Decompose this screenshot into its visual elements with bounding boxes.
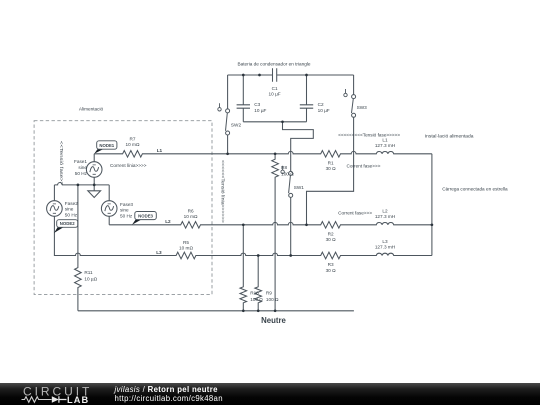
svg-text:R8: R8 (281, 165, 287, 170)
svg-text:L2: L2 (382, 209, 388, 214)
svg-text:Corrent línia>>>>: Corrent línia>>>> (110, 163, 147, 168)
svg-text:10 µΩ: 10 µΩ (84, 276, 97, 281)
svg-text:Càrrega connectada en estrella: Càrrega connectada en estrella (442, 186, 508, 191)
svg-text:sine: sine (78, 165, 87, 170)
svg-text:L3: L3 (156, 250, 162, 255)
svg-text:LAB: LAB (67, 395, 89, 405)
svg-text:10 mΩ: 10 mΩ (184, 214, 198, 219)
svg-text:R3: R3 (328, 262, 334, 267)
svg-text:Bateria de condensador en tria: Bateria de condensador en triangle (238, 61, 311, 66)
svg-text:sine: sine (65, 207, 74, 212)
svg-text:NODE2: NODE2 (60, 221, 75, 226)
svg-text:100 Ω: 100 Ω (281, 172, 294, 177)
svg-text:SW2: SW2 (231, 122, 242, 127)
svg-text:C1: C1 (272, 86, 278, 91)
svg-text:R9: R9 (266, 290, 272, 295)
svg-text:30 Ω: 30 Ω (326, 166, 337, 171)
svg-text:127.3 mH: 127.3 mH (375, 245, 395, 250)
svg-text:10 mΩ: 10 mΩ (126, 142, 140, 147)
svg-text:10 µF: 10 µF (269, 92, 281, 97)
svg-text:30 Ω: 30 Ω (326, 268, 337, 273)
svg-text:Corrent fase>>>: Corrent fase>>> (347, 163, 381, 168)
svg-text:50 Hz: 50 Hz (120, 214, 133, 219)
svg-text:100 Ω: 100 Ω (250, 297, 263, 302)
svg-text:127.3 mH: 127.3 mH (375, 143, 395, 148)
svg-text:10 mΩ: 10 mΩ (179, 246, 193, 251)
svg-text:L1: L1 (382, 138, 388, 143)
svg-text:50 Hz: 50 Hz (75, 171, 88, 176)
svg-text:Corrent fase>>>: Corrent fase>>> (338, 211, 372, 216)
svg-text:100 Ω: 100 Ω (266, 297, 279, 302)
svg-text:Fase1: Fase1 (74, 159, 87, 164)
svg-text:NODE1: NODE1 (99, 143, 114, 148)
svg-text:Fase3: Fase3 (120, 202, 133, 207)
svg-text:L2: L2 (165, 219, 171, 224)
svg-text:R1: R1 (328, 161, 334, 166)
svg-text:C2: C2 (318, 102, 324, 107)
svg-text:R11: R11 (84, 270, 93, 275)
svg-text:R7: R7 (130, 136, 136, 141)
svg-text:<<<<<<Tensió línia>>>>>>: <<<<<<Tensió línia>>>>>> (220, 160, 225, 223)
svg-text:R5: R5 (183, 240, 189, 245)
svg-text:<<Tensió fase>>: <<Tensió fase>> (59, 141, 64, 185)
svg-text:10 µF: 10 µF (318, 108, 330, 113)
svg-text:Alimentació: Alimentació (79, 106, 104, 111)
svg-text:L3: L3 (382, 239, 388, 244)
svg-text:R10: R10 (250, 290, 259, 295)
svg-text:R6: R6 (188, 208, 194, 213)
svg-text:50 Hz: 50 Hz (65, 213, 78, 218)
svg-text:SW3: SW3 (357, 105, 368, 110)
svg-text:Instal·lació alimentada: Instal·lació alimentada (425, 133, 474, 139)
svg-text:30 Ω: 30 Ω (326, 237, 337, 242)
svg-text:L1: L1 (157, 148, 163, 153)
svg-text:sine: sine (120, 208, 129, 213)
svg-text:SW1: SW1 (294, 185, 305, 190)
svg-text:R2: R2 (328, 232, 334, 237)
svg-text:NODE3: NODE3 (138, 213, 153, 218)
svg-text:127.3 mH: 127.3 mH (375, 214, 395, 219)
svg-text:C3: C3 (254, 102, 260, 107)
svg-text:Fase2: Fase2 (65, 201, 78, 206)
svg-text:Neutre: Neutre (261, 316, 286, 325)
svg-text:10 µF: 10 µF (254, 108, 266, 113)
svg-text:<<<<<<<<<Tensió fase>>>>>: <<<<<<<<<Tensió fase>>>>> (338, 133, 400, 138)
